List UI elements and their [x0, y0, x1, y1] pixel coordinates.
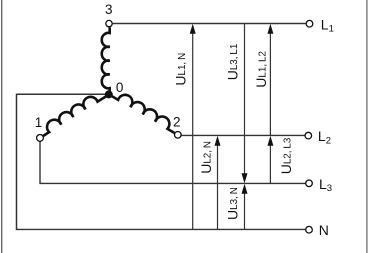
- voltage arrow U L2,N: [215, 136, 221, 230]
- terminal N: [306, 226, 313, 233]
- terminal 3: [106, 20, 112, 26]
- voltage arrow U L1,N: [190, 24, 196, 230]
- svg-text:N: N: [319, 222, 329, 238]
- wire left vertical feed to N: [16, 94, 18, 231]
- voltage arrow U L3,N: [242, 184, 248, 230]
- wire L1 line: [113, 23, 306, 25]
- wire L2 line: [181, 134, 304, 136]
- voltage arrow U L1,L2: [267, 24, 273, 136]
- wire star point 0 to left: [17, 93, 109, 95]
- terminal 1: [37, 135, 44, 142]
- star point node 0: [105, 90, 113, 98]
- svg-text:0: 0: [116, 80, 124, 95]
- terminal L2: [305, 132, 312, 139]
- winding terminal 3 to star point: [102, 27, 110, 91]
- svg-text:3: 3: [105, 2, 113, 17]
- voltage arrow U L3,L1: [242, 24, 248, 184]
- svg-text:2: 2: [173, 114, 181, 129]
- terminal L1: [306, 20, 313, 27]
- wire N line: [17, 228, 306, 230]
- voltage arrow U L2,L3: [267, 136, 273, 184]
- winding terminal 1 to star point: [38, 87, 109, 136]
- terminal 2: [175, 132, 182, 139]
- svg-text:1: 1: [35, 115, 43, 130]
- wire terminal 1 down to L3: [39, 142, 41, 185]
- wire L3 line: [40, 182, 305, 184]
- terminal L3: [306, 180, 313, 187]
- winding terminal 2 to star point: [109, 87, 179, 133]
